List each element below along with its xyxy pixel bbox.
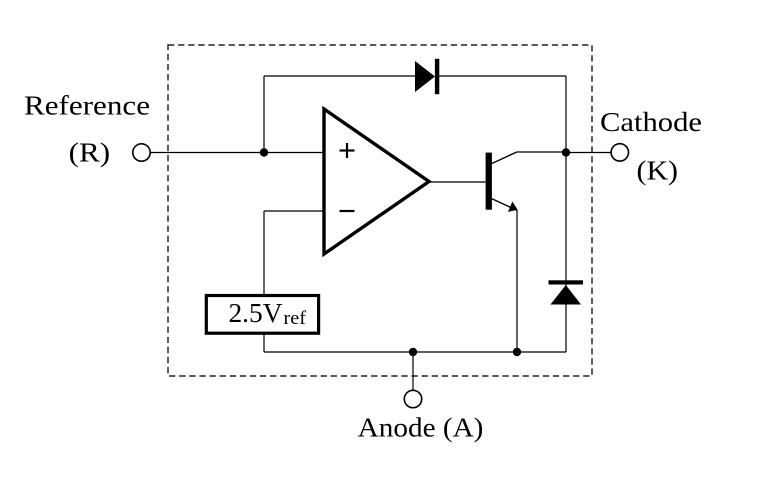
wire: right vertical rail (cathode line down to bottom rail): [565, 76, 567, 352]
op-amp + input marking: [340, 143, 355, 158]
wire: top rail right segment from D1 cathode to right rail: [439, 75, 566, 77]
wire: bottom rail (anode): [264, 351, 566, 353]
svg-text:ref: ref: [284, 308, 307, 329]
node: emitter junction on bottom rail: [513, 348, 521, 356]
wire: op-amp output to transistor base: [429, 181, 486, 183]
svg-text:Reference: Reference: [24, 91, 150, 121]
node: anode junction: [409, 348, 417, 356]
terminal A (open circle): [404, 390, 421, 407]
label: (R): [69, 138, 111, 168]
svg-text:Anode (A): Anode (A): [358, 413, 484, 443]
diode D1 (top): [415, 59, 439, 94]
node: reference junction: [260, 148, 268, 156]
IC package outline (dashed boundary): [168, 45, 592, 376]
label: (K): [637, 156, 679, 186]
terminal R (open circle): [133, 144, 150, 161]
label: Anode (A): [358, 413, 484, 443]
wire: - input down to 2.5V reference: [263, 211, 265, 296]
node: cathode junction: [562, 148, 570, 156]
label: Cathode: [600, 107, 702, 137]
voltage reference box 2.5Vref: [206, 296, 318, 334]
wire: collector to cathode node: [517, 151, 566, 153]
svg-text:(K): (K): [637, 156, 679, 186]
wire: top rail left segment to diode D1 anode: [264, 75, 416, 77]
wire: 2.5V reference to bottom rail: [263, 333, 265, 352]
diode D2 (anode-cathode protection): [549, 280, 584, 304]
label: Reference: [24, 91, 150, 121]
wire: emitter down to bottom rail: [516, 210, 518, 352]
svg-text:Cathode: Cathode: [600, 107, 702, 137]
wire: reference node up to top rail: [263, 76, 265, 153]
svg-text:2.5V: 2.5V: [229, 297, 283, 328]
op-amp U1: [324, 109, 429, 254]
transistor Q1: [486, 152, 518, 212]
terminal K (open circle): [611, 144, 628, 161]
wire: cathode node to K terminal: [566, 152, 611, 154]
wire: anode junction down to A terminal: [412, 352, 414, 391]
svg-text:(R): (R): [69, 138, 111, 168]
wire: R terminal to op-amp + input: [150, 152, 324, 154]
op-amp - input marking: [340, 210, 355, 212]
wire: op-amp - input horizontal: [264, 210, 324, 212]
